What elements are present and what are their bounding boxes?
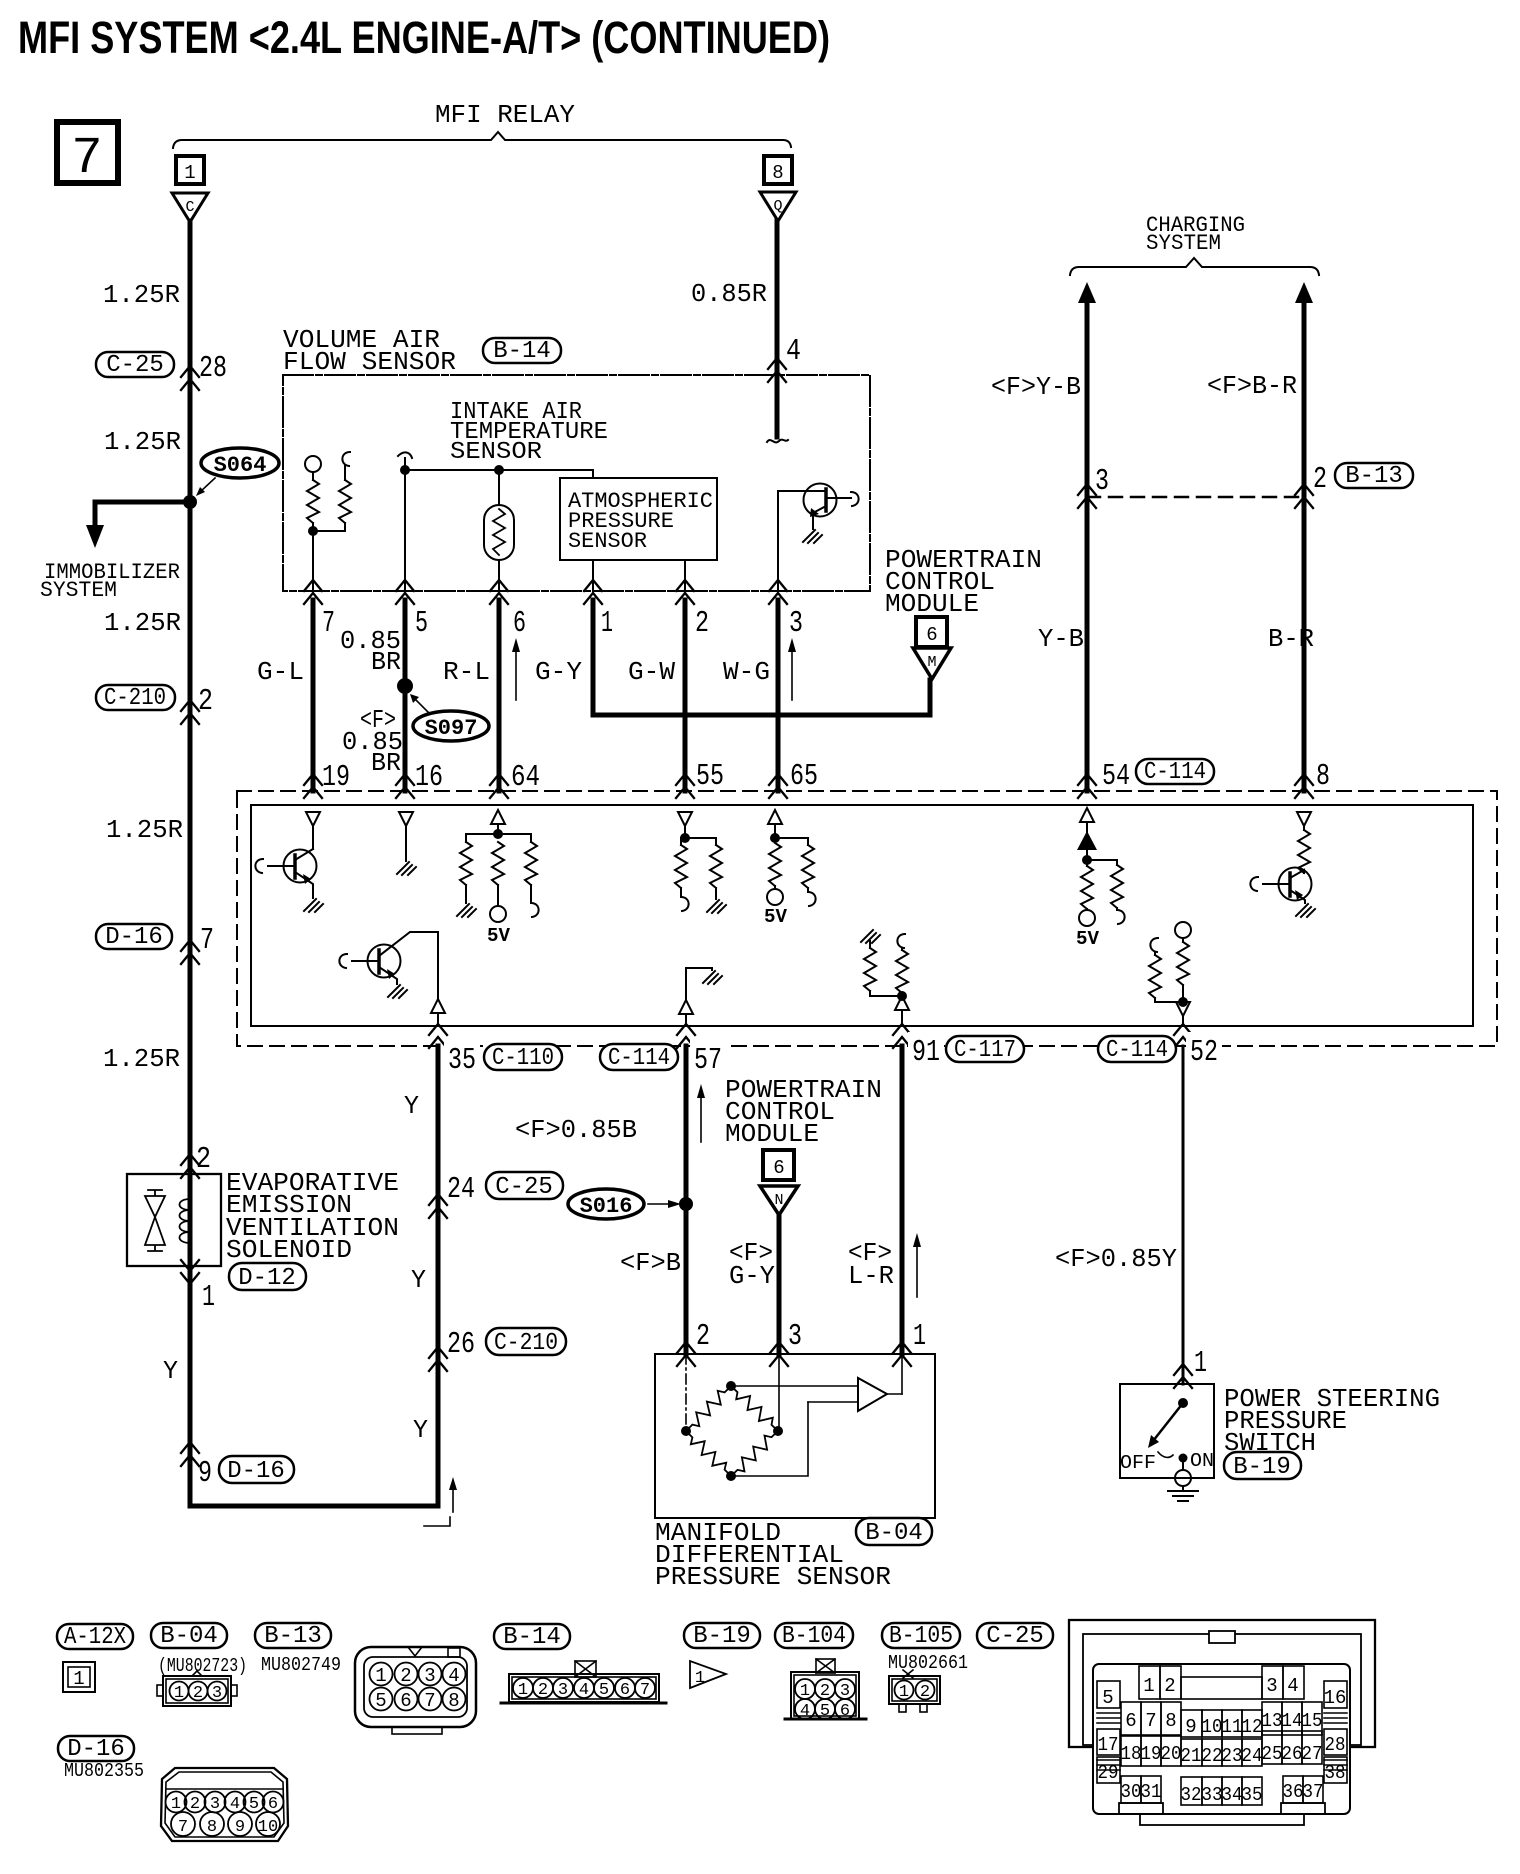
svg-text:9: 9 (198, 1456, 212, 1491)
big C-25 body (1093, 1664, 1350, 1814)
link wire drop to APS (592, 470, 594, 478)
right seals2 (1324, 1760, 1347, 1770)
PCM pin box 6 (lower) (763, 1150, 794, 1180)
connector B-105 oval (882, 1623, 960, 1648)
cell 2 (1160, 1666, 1181, 1699)
svg-text:3: 3 (212, 1684, 222, 1703)
svg-text:4: 4 (786, 334, 801, 369)
svg-text:9: 9 (1185, 1716, 1196, 1738)
resistor pair at pin 55 (675, 845, 687, 888)
svg-text:1: 1 (913, 1319, 926, 1354)
svg-text:B-04: B-04 (865, 1520, 923, 1547)
B-14 drawing (575, 1661, 596, 1677)
ground at pin 16 (397, 862, 416, 875)
connector C-117 oval (946, 1036, 1024, 1062)
svg-text:S016: S016 (580, 1194, 633, 1219)
IAT sensor wire squiggle top (398, 452, 412, 458)
svg-text:R-L: R-L (443, 657, 490, 687)
svg-text:Y-B: Y-B (1038, 624, 1084, 654)
svg-text:3: 3 (788, 1319, 802, 1354)
cell 16 (1324, 1681, 1347, 1708)
cell 37 (1303, 1776, 1323, 1803)
svg-text:2: 2 (538, 1681, 548, 1700)
label masks (444, 1040, 480, 1072)
svg-text:35: 35 (448, 1043, 476, 1078)
svg-text:BR: BR (371, 748, 401, 778)
MDP internal wire pin2 (685, 1354, 687, 1431)
svg-text:4: 4 (800, 1702, 810, 1721)
svg-text:SENSOR: SENSOR (568, 529, 647, 554)
transistor at pin 8 (1250, 877, 1258, 891)
ground at pin19 transistor (304, 899, 323, 912)
cell 7 (1141, 1702, 1161, 1735)
cell 29 (1097, 1757, 1120, 1783)
dashed link between charging wires (1087, 496, 1304, 499)
connector C-25 oval b (486, 1172, 563, 1199)
ON contact dot (1179, 1454, 1188, 1463)
svg-text:16: 16 (1324, 1687, 1347, 1709)
cell 28 (1324, 1729, 1347, 1755)
svg-text:1: 1 (800, 1682, 810, 1701)
cell 21 (1181, 1739, 1202, 1766)
wire Y from pin 35 (436, 1046, 441, 1506)
cell 4 (1283, 1666, 1304, 1699)
cell 35 (1242, 1777, 1262, 1805)
svg-text:8: 8 (1316, 759, 1330, 794)
pin 57 terminal triangle (679, 1000, 693, 1014)
charging wire Y-B (1085, 300, 1090, 791)
right seals (1324, 1713, 1347, 1723)
5V source at pin 65 (767, 889, 783, 905)
svg-text:<F>B: <F>B (620, 1248, 681, 1278)
svg-text:SYSTEM: SYSTEM (40, 578, 117, 603)
page number box 7 (57, 122, 118, 183)
svg-text:9: 9 (235, 1818, 245, 1837)
svg-text:G-Y: G-Y (729, 1261, 775, 1291)
svg-text:1: 1 (695, 1669, 705, 1688)
svg-text:7: 7 (178, 1818, 188, 1837)
svg-text:<F>B-R: <F>B-R (1207, 371, 1297, 401)
chevrons above D-16 splice (181, 1442, 199, 1466)
charging wire B-R arrowhead (1295, 282, 1313, 303)
svg-text:22: 22 (1202, 1745, 1223, 1767)
resistor pair at pin 54 (1081, 866, 1093, 909)
svg-text:1: 1 (601, 606, 613, 641)
splice S097 oval (413, 711, 489, 741)
connector C-114 oval at 57 (600, 1044, 678, 1070)
svg-text:65: 65 (790, 759, 818, 794)
chevrons on charging wires (1078, 484, 1096, 508)
big C-25 connector outer shell (1069, 1620, 1375, 1747)
svg-text:7: 7 (424, 1690, 435, 1712)
svg-text:35: 35 (1242, 1784, 1263, 1806)
chevrons at solenoid top (181, 1154, 199, 1178)
svg-text:MU802749: MU802749 (261, 1654, 341, 1676)
relay pin box 1 (176, 156, 204, 184)
transistor at pin 19 (255, 859, 263, 873)
pin 55 terminal triangle (678, 812, 692, 826)
svg-text:1: 1 (899, 1683, 909, 1702)
resistor pair at pin 65 (769, 843, 781, 886)
cell 8 (1161, 1702, 1181, 1735)
bridge nodes (726, 1381, 736, 1391)
resistor pair above pin 91 (861, 930, 880, 943)
svg-text:M: M (927, 654, 936, 671)
resistor trio at pin 64 (460, 842, 472, 885)
svg-text:1: 1 (184, 162, 195, 184)
wire to pin 7 (312, 531, 314, 591)
thermistor element (498, 470, 500, 505)
svg-text:4: 4 (579, 1681, 589, 1700)
svg-text:20: 20 (1161, 1743, 1182, 1765)
big C-25 top notch (1209, 1631, 1235, 1643)
left feet (1119, 1803, 1163, 1814)
solenoid coil (180, 1174, 191, 1266)
resistor pair above pin 52 (1150, 938, 1158, 952)
wire 0.85R from relay pin 8 (775, 221, 780, 437)
connector A-12X oval (57, 1624, 133, 1649)
svg-text:2: 2 (1313, 462, 1327, 497)
junction dot at x405 (400, 465, 410, 475)
bridge resistors (686, 1386, 731, 1431)
svg-text:52: 52 (1190, 1035, 1218, 1070)
svg-text:1: 1 (202, 1280, 215, 1315)
svg-text:29: 29 (1098, 1762, 1119, 1784)
svg-text:6: 6 (1125, 1710, 1136, 1732)
cell 33 (1202, 1777, 1222, 1805)
APS wire pin2 (684, 560, 686, 591)
splice S016 oval (568, 1189, 644, 1219)
PCM inner solid box (251, 805, 1473, 1026)
svg-text:SYSTEM: SYSTEM (1146, 231, 1221, 256)
cell 27 (1302, 1731, 1322, 1764)
svg-text:B-R: B-R (1268, 624, 1314, 654)
svg-text:G-L: G-L (257, 657, 304, 687)
svg-text:55: 55 (696, 759, 724, 794)
svg-text:2: 2 (400, 1665, 411, 1687)
volume air flow sensor box (283, 375, 870, 591)
svg-text:3: 3 (558, 1681, 568, 1700)
B-04 drawing (192, 1671, 202, 1676)
PCM triangle M (913, 648, 951, 679)
wire G-Y from N to MDP (777, 1215, 782, 1354)
svg-text:23: 23 (1222, 1745, 1243, 1767)
pin 19 terminal triangle (306, 812, 320, 826)
cell 9 (1181, 1710, 1202, 1737)
connector D-16 oval b (219, 1456, 294, 1483)
svg-text:4: 4 (448, 1665, 459, 1687)
svg-text:W-G: W-G (723, 657, 770, 687)
wire L-R from pin 91 (900, 1046, 905, 1354)
svg-text:1.25R: 1.25R (106, 815, 183, 845)
svg-text:64: 64 (511, 760, 540, 795)
svg-text:MODULE: MODULE (885, 589, 979, 619)
svg-text:6: 6 (400, 1690, 411, 1712)
cell 32 (1181, 1777, 1202, 1805)
wire R-L pin6 to PCM (497, 600, 502, 791)
svg-text:25: 25 (1262, 1743, 1283, 1765)
junction node S016 (679, 1197, 693, 1211)
svg-text:18: 18 (1121, 1743, 1142, 1765)
svg-text:1.25R: 1.25R (104, 427, 181, 457)
svg-text:ON: ON (1190, 1450, 1214, 1472)
cell 23 (1222, 1739, 1242, 1766)
relay triangle Q (760, 192, 796, 221)
svg-text:B-14: B-14 (503, 1624, 561, 1651)
svg-text:FLOW SENSOR: FLOW SENSOR (283, 347, 456, 377)
cell 34 (1222, 1777, 1242, 1805)
svg-text:8: 8 (1165, 1710, 1176, 1732)
pin 91 terminal triangle (895, 996, 909, 1010)
svg-text:5V: 5V (1076, 928, 1100, 950)
cell 1 (1139, 1666, 1160, 1699)
cell 22 (1202, 1739, 1222, 1766)
svg-text:19: 19 (1141, 1743, 1162, 1765)
svg-text:4: 4 (230, 1795, 240, 1814)
connector C-114 oval at 54 (1136, 759, 1214, 784)
chevrons at PS switch top (1174, 1364, 1192, 1388)
connector B-04 oval (856, 1518, 932, 1545)
D-16 drawing (161, 1768, 288, 1841)
resistor R-b curl top (342, 452, 350, 466)
svg-text:7: 7 (200, 923, 214, 958)
svg-text:38: 38 (1325, 1762, 1346, 1784)
cell 38 (1324, 1757, 1347, 1783)
svg-text:C-114: C-114 (1106, 1037, 1168, 1064)
cell 36 (1283, 1776, 1303, 1803)
svg-text:21: 21 (1181, 1745, 1202, 1767)
svg-text:1: 1 (1143, 1675, 1154, 1697)
pin 52 terminal triangle (1176, 1002, 1190, 1016)
switch curl (1158, 1452, 1173, 1457)
resistor R-b (339, 480, 351, 523)
left seals (1097, 1713, 1120, 1723)
wire G-L pin7 to PCM (311, 600, 316, 791)
svg-text:(MU802723): (MU802723) (158, 1655, 247, 1677)
arrow up beside L-R (916, 1243, 918, 1297)
svg-text:36: 36 (1283, 1781, 1304, 1803)
svg-text:5V: 5V (487, 925, 511, 947)
svg-text:8: 8 (448, 1690, 459, 1712)
svg-text:12: 12 (1242, 1716, 1263, 1738)
sensor source circle at pin 52 (1175, 922, 1191, 938)
chevrons below solenoid (181, 1260, 199, 1284)
op-amp (858, 1378, 887, 1411)
svg-text:2: 2 (193, 1684, 203, 1703)
svg-text:15: 15 (1302, 1710, 1323, 1732)
connector C-25 oval (96, 352, 174, 377)
svg-text:6: 6 (513, 606, 526, 641)
transistor Q-vafs base wire from pin3 (778, 491, 824, 591)
junction dot at x499 (494, 465, 504, 475)
svg-text:MU802355: MU802355 (64, 1760, 144, 1782)
svg-text:7: 7 (1145, 1710, 1156, 1732)
IAT sensor vertical wire (404, 458, 406, 591)
chevrons at C-210 b (429, 1347, 447, 1371)
connector B-14 oval (483, 338, 561, 363)
junction dot pin64 (493, 829, 503, 839)
pin 16 terminal triangle (399, 812, 413, 826)
svg-text:5: 5 (820, 1702, 830, 1721)
pin 57 ground link (686, 968, 712, 1000)
svg-text:28: 28 (1325, 1734, 1346, 1756)
svg-text:3: 3 (789, 606, 803, 641)
arrow up beside R-L (515, 648, 517, 700)
resistor R-a circle top (305, 456, 321, 472)
cell 30 (1121, 1776, 1141, 1803)
svg-text:54: 54 (1102, 759, 1130, 794)
MDP internal wire pin3 (778, 1354, 780, 1431)
svg-text:6: 6 (268, 1795, 278, 1814)
cell 25 (1262, 1731, 1282, 1764)
connector B-19 oval (1224, 1452, 1301, 1479)
svg-text:B-104: B-104 (782, 1623, 846, 1650)
svg-text:31: 31 (1141, 1781, 1162, 1803)
manifold differential pressure sensor box (655, 1354, 935, 1518)
connector C-210 oval (96, 685, 175, 710)
svg-text:PRESSURE SENSOR: PRESSURE SENSOR (655, 1562, 891, 1592)
chevrons at D-16 (181, 940, 199, 964)
svg-text:B-13: B-13 (1345, 463, 1403, 490)
op-amp input wires (731, 1385, 858, 1387)
solenoid valve symbol (145, 1190, 165, 1251)
svg-text:C-117: C-117 (954, 1037, 1016, 1064)
svg-text:14: 14 (1282, 1710, 1303, 1732)
cell 20 (1161, 1736, 1181, 1766)
pin 35 terminal triangle (431, 999, 445, 1013)
svg-text:6: 6 (620, 1681, 630, 1700)
chevrons at C-25 b (429, 1194, 447, 1218)
svg-text:B-19: B-19 (693, 1623, 751, 1650)
immobilizer branch wire (95, 502, 190, 527)
svg-text:1: 1 (518, 1681, 528, 1700)
chevrons at VAFS box top for pin 4 (768, 358, 786, 382)
svg-text:SENSOR: SENSOR (450, 439, 542, 466)
cell 5 (1097, 1681, 1120, 1708)
connector D-12 oval (229, 1263, 306, 1290)
svg-text:OFF: OFF (1120, 1452, 1156, 1474)
svg-text:2: 2 (190, 1795, 200, 1814)
wire 0.85Y from pin 52 (1182, 1046, 1185, 1384)
A-12X drawing (63, 1662, 95, 1692)
svg-text:28: 28 (199, 351, 227, 386)
svg-text:B-04: B-04 (160, 1623, 218, 1650)
APS wire pin1 (592, 560, 594, 591)
svg-text:16: 16 (415, 760, 443, 795)
svg-text:10: 10 (1202, 1716, 1223, 1738)
svg-text:6: 6 (926, 624, 937, 646)
splice S097 node (397, 678, 413, 694)
arrow up beside 57 (700, 1094, 702, 1142)
wire 0.85BR pin5 to PCM (403, 600, 408, 791)
pin 8 terminal triangle (1297, 812, 1311, 826)
svg-text:3: 3 (840, 1682, 850, 1701)
junction dot R-a/R-b (308, 526, 318, 536)
chevrons at C-25 (181, 366, 199, 390)
svg-text:7: 7 (640, 1681, 650, 1700)
wire R-b to junction (313, 523, 345, 531)
wire G-Y pin1 to M triangle (593, 600, 930, 715)
svg-text:2: 2 (198, 684, 213, 719)
svg-text:1: 1 (375, 1665, 386, 1687)
svg-text:1.25R: 1.25R (104, 608, 181, 638)
svg-text:7: 7 (322, 606, 335, 641)
svg-text:A-12X: A-12X (64, 1624, 126, 1651)
cell 24 (1242, 1739, 1262, 1766)
cell 10 (1202, 1710, 1222, 1737)
resistor at pin 8 (1298, 830, 1310, 873)
chevrons at MDP box top (677, 1342, 695, 1366)
transistor at pin 35 (339, 954, 347, 968)
cell 14 (1282, 1702, 1302, 1735)
svg-text:37: 37 (1303, 1781, 1324, 1803)
arrow from S097 oval (414, 698, 428, 712)
svg-text:2: 2 (1164, 1675, 1175, 1697)
svg-text:B-14: B-14 (493, 338, 551, 365)
transistor Q-vafs (804, 484, 837, 517)
connector D-16 oval (96, 924, 172, 949)
svg-text:C-114: C-114 (1144, 759, 1206, 786)
svg-text:N: N (774, 1192, 783, 1209)
wire W-G pin3 to PCM (776, 600, 781, 791)
arrow from S064 to junction (200, 478, 215, 492)
charging wire B-R (1302, 300, 1307, 791)
switch ground circle (1175, 1470, 1191, 1486)
PCM outer dashed box (237, 791, 1497, 1046)
connector B-04 oval b (151, 1623, 227, 1648)
connector C-210 oval b (486, 1328, 566, 1355)
immobilizer arrowhead (86, 525, 104, 548)
5V source at pin 64 (490, 906, 506, 922)
svg-text:D-16: D-16 (227, 1458, 285, 1485)
svg-text:C-25: C-25 (495, 1174, 553, 1201)
ground at Q-vafs (803, 530, 822, 543)
svg-text:MFI RELAY: MFI RELAY (435, 100, 575, 130)
svg-text:30: 30 (1121, 1781, 1142, 1803)
charging wire Y-B arrowhead (1078, 282, 1096, 303)
svg-text:3: 3 (424, 1665, 435, 1687)
svg-text:5: 5 (249, 1795, 259, 1814)
cell 26 (1282, 1731, 1302, 1764)
junction node S064 (183, 495, 197, 509)
svg-text:1: 1 (1194, 1346, 1207, 1381)
svg-text:27: 27 (1302, 1743, 1323, 1765)
cell 31 (1141, 1776, 1161, 1803)
svg-text:2: 2 (920, 1683, 930, 1702)
svg-text:G-Y: G-Y (535, 657, 582, 687)
5V source at pin 54 (1079, 910, 1095, 926)
connector B-13 oval b (255, 1623, 331, 1648)
MDP internal wire pin1 (901, 1354, 903, 1394)
cell 12 (1242, 1710, 1262, 1737)
svg-text:BR: BR (371, 647, 401, 677)
svg-text:1.25R: 1.25R (103, 1044, 180, 1074)
diode at pin 54 (1077, 831, 1097, 850)
resistor R-a (307, 480, 319, 523)
svg-text:57: 57 (694, 1043, 722, 1078)
connector B-13 oval (1335, 463, 1413, 488)
tilde end of 0.85R wire (767, 440, 788, 443)
cell 17 (1097, 1729, 1120, 1755)
connector C-110 oval (484, 1044, 562, 1070)
continuation arrow at bottom corner (452, 1487, 454, 1512)
svg-text:1: 1 (174, 1684, 184, 1703)
svg-text:G-W: G-W (628, 657, 675, 687)
svg-text:2: 2 (695, 606, 709, 641)
left seals2 (1097, 1760, 1120, 1770)
pin 54 terminal triangle (1080, 808, 1094, 822)
cell 19 (1141, 1736, 1161, 1766)
